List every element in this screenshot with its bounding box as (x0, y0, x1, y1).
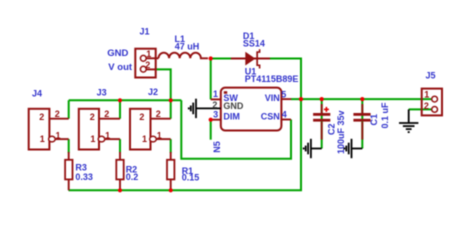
svg-text:GND: GND (223, 101, 244, 111)
svg-text:J4: J4 (32, 88, 42, 98)
svg-text:J2: J2 (148, 87, 158, 97)
svg-text:PT4115B89E: PT4115B89E (245, 74, 299, 84)
svg-text:1: 1 (157, 130, 162, 140)
svg-text:1: 1 (90, 134, 95, 144)
svg-text:V out: V out (108, 62, 133, 73)
svg-text:3: 3 (213, 110, 218, 120)
svg-text:GND: GND (107, 48, 128, 59)
svg-text:0.1 uF: 0.1 uF (380, 102, 390, 129)
svg-text:SS14: SS14 (243, 39, 265, 49)
svg-text:1: 1 (40, 134, 45, 144)
svg-text:0.15: 0.15 (182, 172, 200, 182)
svg-text:5: 5 (281, 89, 286, 99)
svg-text:J1: J1 (140, 26, 150, 36)
svg-text:1: 1 (142, 134, 147, 144)
svg-text:100uF 35v: 100uF 35v (336, 110, 346, 154)
svg-text:J3: J3 (97, 87, 107, 97)
svg-text:J5: J5 (426, 71, 436, 81)
svg-text:2: 2 (424, 101, 429, 111)
svg-text:0.2: 0.2 (126, 172, 139, 182)
svg-text:1: 1 (105, 130, 110, 140)
svg-text:DIM: DIM (223, 112, 240, 122)
svg-text:1: 1 (424, 90, 429, 100)
svg-text:2: 2 (39, 112, 44, 122)
svg-text:1: 1 (56, 130, 61, 140)
svg-text:N5: N5 (212, 141, 222, 153)
svg-text:2: 2 (212, 100, 217, 110)
svg-text:CSN: CSN (261, 112, 280, 122)
svg-text:2: 2 (104, 109, 109, 119)
svg-text:2: 2 (145, 60, 150, 70)
svg-text:2: 2 (156, 109, 161, 119)
svg-text:4: 4 (282, 109, 287, 119)
svg-text:2: 2 (139, 112, 144, 122)
svg-text:C1: C1 (369, 114, 379, 126)
svg-text:VIN: VIN (265, 93, 280, 103)
svg-text:1: 1 (213, 89, 218, 99)
svg-text:2: 2 (55, 109, 60, 119)
svg-text:1: 1 (146, 49, 151, 59)
svg-text:2: 2 (90, 112, 95, 122)
svg-text:47 uH: 47 uH (175, 42, 200, 52)
svg-text:C2: C2 (326, 123, 336, 135)
svg-text:0.33: 0.33 (75, 172, 93, 182)
